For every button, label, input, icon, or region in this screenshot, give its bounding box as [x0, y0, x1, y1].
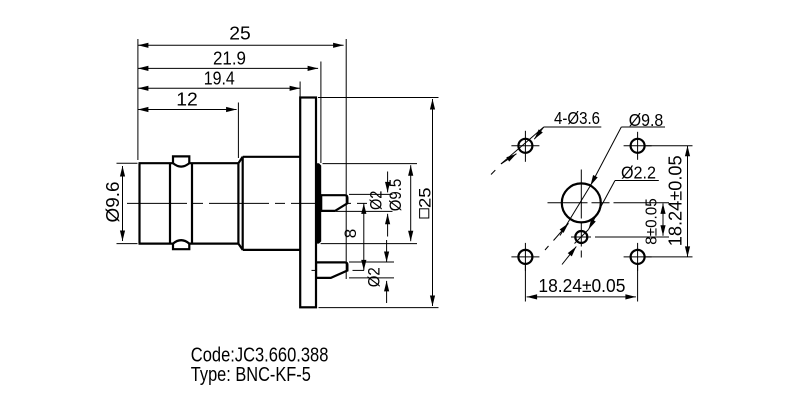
small hole horizontal line — [571, 236, 669, 238]
pin lower centerline right — [353, 269, 365, 271]
front view horizontal centerline — [548, 202, 670, 204]
bayonet lug bottom — [173, 244, 189, 250]
hole bottom-right — [631, 250, 645, 264]
pin lower centerline left — [312, 269, 317, 271]
svg-text:21.9: 21.9 — [213, 49, 246, 69]
hole top-left — [518, 139, 532, 153]
dimension dia 9.5 — [323, 163, 418, 165]
svg-text:Ø9.6: Ø9.6 — [103, 182, 123, 223]
front view vertical centerline — [580, 170, 582, 258]
large section bottom outline — [243, 249, 301, 251]
dimension 25 — [138, 44, 344, 46]
step face large — [242, 157, 244, 250]
dimension 18.24 bottom — [524, 265, 526, 302]
chamfer bottom — [238, 244, 242, 250]
body bottom outline — [139, 243, 174, 245]
body front face — [138, 163, 140, 243]
large section top outline — [243, 156, 301, 158]
svg-text:8±0.05: 8±0.05 — [644, 198, 661, 245]
centerline main axis side view — [127, 202, 370, 204]
dimension 19.4 — [138, 87, 300, 89]
svg-text:18.24±0.05: 18.24±0.05 — [664, 155, 685, 246]
dimension 18.24 right — [645, 145, 693, 147]
pin lower — [316, 262, 347, 278]
svg-text:19.4: 19.4 — [204, 69, 235, 89]
rear body — [315, 163, 321, 243]
svg-text:Ø2: Ø2 — [366, 267, 384, 287]
step face small — [237, 163, 239, 243]
body top outline — [139, 162, 174, 164]
svg-text:Ø2: Ø2 — [368, 191, 386, 211]
svg-text:25: 25 — [229, 24, 251, 44]
center hole dia 9.8 — [562, 183, 601, 222]
dimension 8 — [363, 203, 365, 270]
bayonet lug top — [173, 156, 189, 163]
svg-text:8: 8 — [342, 229, 360, 239]
dimension dia 2 lower — [349, 261, 394, 263]
svg-text:4-Ø3.6: 4-Ø3.6 — [554, 108, 600, 128]
svg-text:18.24±0.05: 18.24±0.05 — [538, 275, 625, 296]
dimension 21.9 — [138, 67, 318, 69]
svg-text:Ø2.2: Ø2.2 — [621, 162, 656, 182]
pin upper — [321, 195, 347, 211]
svg-text:25: 25 — [416, 188, 435, 209]
chamfer top — [238, 157, 242, 163]
dimension 8 plus minus — [662, 203, 664, 235]
svg-text:Ø9.5: Ø9.5 — [386, 179, 405, 212]
hole bottom-left — [518, 250, 532, 264]
svg-text:Type: BNC-KF-5: Type: BNC-KF-5 — [191, 363, 311, 386]
bayonet ring left edge — [169, 163, 171, 243]
small hole dia 2.2 — [575, 231, 587, 243]
dimension 12 — [138, 109, 237, 111]
dimension dia 2 upper — [349, 193, 393, 195]
flange — [300, 98, 316, 308]
dimension dia 9.6 — [117, 162, 138, 164]
extension line left face — [137, 39, 139, 160]
dimension square 25 — [318, 97, 439, 99]
hole top-right — [631, 139, 645, 153]
bayonet ring right edge — [191, 163, 193, 243]
svg-text:12: 12 — [176, 90, 198, 110]
